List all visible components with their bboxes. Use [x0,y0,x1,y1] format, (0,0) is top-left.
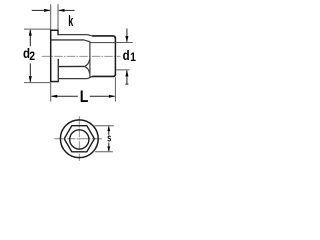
inner diagonal down [84,66,89,73]
d1 bottom arrow (outside) [125,70,128,84]
svg-text:s: s [107,132,111,144]
wire k left extension line [50,4,52,30]
end face [114,38,116,75]
bore chamfer diagonal [84,40,90,42]
s top extension line [94,125,113,127]
d1 top arrow (outside) [125,29,128,43]
inner diagonal up [84,59,89,66]
horizontal centerline [54,138,102,140]
flange corner step top [57,30,59,35]
k dimension right arrow [58,9,75,12]
L dimension line with arrows [51,95,116,98]
d2 top extension line [24,28,50,30]
d1 top extension line [116,42,133,44]
svg-text:1: 1 [130,51,136,64]
flange corner step bottom / shank face vertical [57,59,59,82]
d2 dimension line with arrows [29,29,32,83]
k dimension left arrow [32,9,51,12]
d2 bottom extension line [24,82,50,84]
svg-text:d: d [123,47,130,63]
thread end vertical [89,41,91,77]
wire k right extension line [57,4,59,30]
flange left face [50,30,52,83]
shank section1 top [58,35,93,36]
bore circle [70,130,89,149]
L right extension line [114,77,116,102]
body section2 top with rounded end corner [92,36,115,39]
hexagon [64,126,94,152]
bore line top [51,39,84,41]
body section2 bottom with rounded end corner [92,74,115,77]
d1 bottom extension line [116,69,129,71]
L left extension line [50,83,52,102]
svg-text:L: L [80,88,89,106]
flange top [50,29,59,31]
centerline main view [42,55,121,57]
outer circle (body dia) [60,120,98,158]
s dimension line with arrows [107,126,110,152]
thread line top [90,42,116,44]
svg-text:k: k [68,13,73,30]
inner wall line bottom [58,65,84,67]
svg-text:2: 2 [29,50,35,63]
s bottom extension line [95,151,113,153]
vertical centerline [78,116,80,161]
shank section1 bottom [58,76,93,78]
flange bottom [50,81,59,83]
